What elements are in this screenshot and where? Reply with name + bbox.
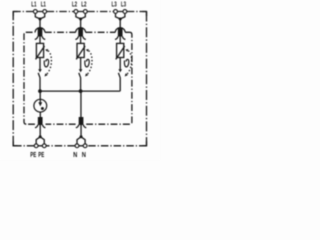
svg-text:L2: L2 (72, 0, 77, 9)
svg-text:N: N (73, 150, 77, 159)
svg-text:PE: PE (38, 150, 44, 159)
svg-text:L3: L3 (112, 0, 117, 9)
svg-text:L1: L1 (41, 0, 46, 9)
svg-text:L1: L1 (31, 0, 36, 9)
svg-text:L2: L2 (81, 0, 86, 9)
svg-text:L3: L3 (121, 0, 126, 9)
svg-text:N: N (82, 150, 86, 159)
svg-text:PE: PE (30, 150, 36, 159)
